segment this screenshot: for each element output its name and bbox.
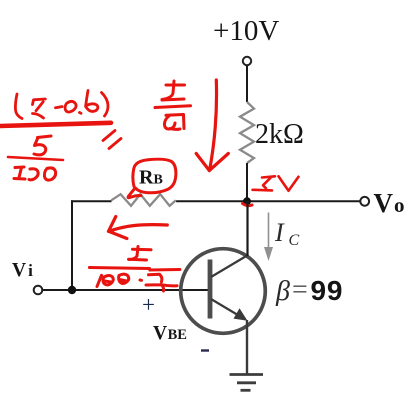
transistor base bar [208,260,213,319]
wire base [42,289,208,291]
annotation denominator 100 [14,167,56,180]
svg-text:+10V: +10V [213,15,279,47]
ground bar 3 [241,389,251,392]
annotation equals [103,131,121,149]
svg-text:Vo: Vo [374,188,405,218]
terminal Vi [34,286,43,295]
annotation denominator 100.2 [97,274,177,291]
ground bar 1 [230,373,264,376]
current IC arrow [268,213,270,249]
annotation underline [0,123,111,126]
annotation long arrow [196,80,228,171]
svg-text:Vi: Vi [12,260,33,281]
svg-text:=: = [292,275,308,306]
wire collector vertical [246,201,248,256]
wire collector node to Vo [176,200,361,202]
ground bar 2 [237,381,256,384]
svg-text:99: 99 [311,275,344,306]
annotation numerator 5 [34,136,51,155]
wire left vertical [71,200,73,290]
annotation fraction bar [8,157,63,160]
wire emitter to ground [246,320,248,375]
annotation (5-0.6) [15,91,108,119]
annotation left arrow [109,217,168,239]
wire resistor to node [246,163,248,201]
transistor emitter arrowhead [234,308,248,321]
node collector red mark [243,204,253,206]
svg-text:+: + [142,292,155,317]
wire left vertical branch top segment [71,200,112,202]
annotation 5/2 denominator 2 [164,115,184,130]
terminal VCC [243,57,251,65]
annotation fraction bar 2 [89,268,179,271]
transistor emitter diagonal [211,299,242,318]
node collector dot [243,197,251,205]
svg-text:C: C [289,232,300,249]
annotation 5/2 numerator [162,81,185,100]
annotation 5V [253,176,299,191]
junction dot base node [68,286,76,294]
resistor RB (horizontal zigzag) [111,194,176,206]
svg-text:β: β [275,276,290,307]
svg-text:I: I [274,218,285,247]
annotation small 5 numerator [129,247,152,261]
transistor collector diagonal [211,255,248,277]
label minus of VBE [201,349,209,351]
annotation 5/2 bar [155,106,191,108]
resistor 2k (vertical zigzag) [240,102,254,163]
svg-text:VBE: VBE [153,323,187,344]
annotation circle around RB [128,159,176,198]
svg-text:2kΩ: 2kΩ [255,119,304,150]
transistor Q1 circle [181,249,266,334]
terminal Vo [360,197,369,206]
wire VCC to R collector resistor [246,65,248,102]
